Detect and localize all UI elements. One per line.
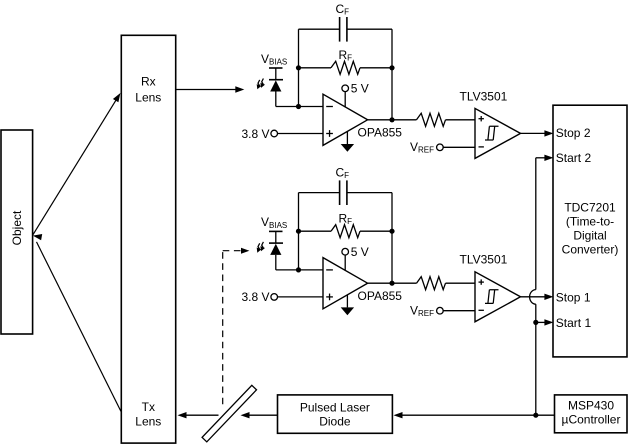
source VREF (stage 2)	[410, 303, 475, 318]
node: start-trigger junction on MSP430 wire	[533, 413, 538, 418]
svg-text:µController: µController	[562, 413, 621, 427]
wire: laser beam PLD to beam splitter	[241, 412, 278, 418]
wire: feedback network top rail (CF branch)	[299, 29, 393, 120]
wire: feedback network top rail (CF2 branch)	[299, 193, 393, 284]
wire: start net vertical (with hop over Stop 1)	[530, 158, 536, 415]
wire: comparator U4 output to Stop 1	[521, 294, 554, 300]
photodiode D2	[269, 243, 283, 270]
wire: MSP430 trigger to Pulsed Laser Diode	[394, 412, 555, 418]
resistor RF (stage 1)	[299, 61, 393, 74]
box: TDC7201 (Time-to-Digital Converter)	[553, 105, 627, 357]
beam splitter	[202, 385, 256, 442]
wire: resistor to comparator + input	[446, 282, 476, 284]
capacitor CF (stage 1)	[340, 17, 347, 42]
node: feedback right junctions	[389, 65, 394, 122]
photodiode D1	[269, 80, 283, 107]
resistor RF (stage 2)	[299, 225, 393, 238]
resistor R2 (series to comparator)	[417, 277, 446, 290]
svg-text:Digital: Digital	[573, 229, 606, 243]
label RF value	[339, 48, 353, 63]
svg-text:Tx: Tx	[142, 400, 155, 414]
pin label Stop 2	[556, 126, 591, 140]
wire: Rx lens output to photodiode D1 (optical)	[176, 86, 245, 92]
svg-text:Lens: Lens	[135, 415, 161, 429]
light arrows into photodiode D2	[257, 242, 265, 253]
pin label Start 1	[556, 316, 592, 330]
op-amp U3 OPA855 (stage 2)	[323, 258, 368, 309]
wire: comparator U2 output to Stop 2	[521, 130, 554, 136]
light arrows into photodiode D1	[257, 79, 265, 90]
wire: optical path object to Rx lens	[33, 93, 121, 235]
svg-text:5 V: 5 V	[351, 245, 369, 259]
label TLV3501	[460, 89, 508, 103]
svg-text:TDC7201: TDC7201	[564, 201, 616, 215]
supply 5V (stage 1)	[342, 81, 369, 107]
wire: resistor to comparator + input	[446, 119, 476, 121]
op-amp U1 OPA855 (stage 1)	[323, 94, 368, 145]
svg-text:Converter): Converter)	[562, 243, 619, 257]
wire: non-inverting input 3.8V	[242, 290, 324, 304]
node: Start 1 tap	[533, 320, 538, 325]
pin label Stop 1	[556, 290, 591, 304]
capacitor CF (stage 2)	[340, 180, 347, 205]
svg-text:TLV3501: TLV3501	[460, 89, 508, 103]
wire: op-amp output node (stage 2)	[368, 282, 417, 284]
box: Rx / Tx Lens	[121, 35, 175, 443]
svg-text:3.8 V: 3.8 V	[242, 127, 270, 141]
svg-text:Pulsed Laser: Pulsed Laser	[300, 400, 370, 414]
supply 5V (stage 2)	[342, 245, 369, 271]
wire: photodiode to inverting input (node IN2)	[276, 269, 323, 271]
label OPA855	[358, 125, 403, 139]
supply VBIAS (stage 2)	[261, 215, 287, 243]
svg-text:5 V: 5 V	[351, 81, 369, 95]
hysteresis symbol inside U2	[485, 126, 499, 140]
source VREF (stage 1)	[410, 140, 475, 155]
svg-text:Stop 1: Stop 1	[556, 290, 591, 304]
label RF value	[339, 211, 353, 226]
svg-text:Diode: Diode	[319, 415, 351, 429]
svg-text:(Time-to-: (Time-to-	[566, 215, 614, 229]
wire: start net to Start 2	[536, 155, 554, 161]
ground (stage 2 op-amp)	[341, 295, 354, 315]
label OPA855	[358, 289, 403, 303]
pin label Start 2	[556, 151, 592, 165]
node: feedback left junctions	[296, 65, 301, 109]
svg-text:Start 2: Start 2	[556, 151, 592, 165]
wire: op-amp output node (stage 1)	[368, 119, 417, 121]
node: feedback left junctions	[296, 229, 301, 273]
box: MSP430 microcontroller	[555, 395, 628, 433]
wire: laser beam splitter to Tx lens	[178, 412, 219, 418]
comparator U4 TLV3501 (stage 2)	[475, 272, 521, 322]
hysteresis symbol inside U4	[485, 290, 499, 304]
svg-text:OPA855: OPA855	[358, 289, 403, 303]
label CF value	[336, 2, 350, 17]
svg-text:3.8 V: 3.8 V	[242, 290, 270, 304]
node: feedback right junctions	[389, 229, 394, 286]
svg-text:Stop 2: Stop 2	[556, 126, 591, 140]
resistor R1 (series to comparator)	[417, 113, 446, 126]
supply VBIAS (stage 1)	[261, 52, 287, 80]
svg-text:MSP430: MSP430	[568, 399, 614, 413]
ground (stage 1 op-amp)	[341, 132, 354, 152]
svg-text:Rx: Rx	[141, 75, 156, 89]
wire: reference beam (dashed) splitter to photodiode D2	[223, 248, 250, 405]
comparator U2 TLV3501 (stage 1)	[475, 108, 521, 158]
label CF value	[336, 165, 350, 180]
box: Pulsed Laser Diode	[278, 395, 393, 433]
svg-text:Lens: Lens	[135, 90, 161, 104]
svg-text:TLV3501: TLV3501	[460, 253, 508, 267]
wire: start net to Start 1	[536, 319, 554, 325]
svg-text:Object: Object	[10, 210, 24, 245]
svg-text:Start 1: Start 1	[556, 316, 592, 330]
box: Object	[1, 130, 33, 334]
wire: optical path Tx lens to object	[33, 234, 121, 412]
label TLV3501	[460, 253, 508, 267]
wire: photodiode to inverting input (node IN1)	[276, 106, 323, 108]
wire: non-inverting input 3.8V	[242, 127, 324, 141]
svg-text:OPA855: OPA855	[358, 125, 403, 139]
